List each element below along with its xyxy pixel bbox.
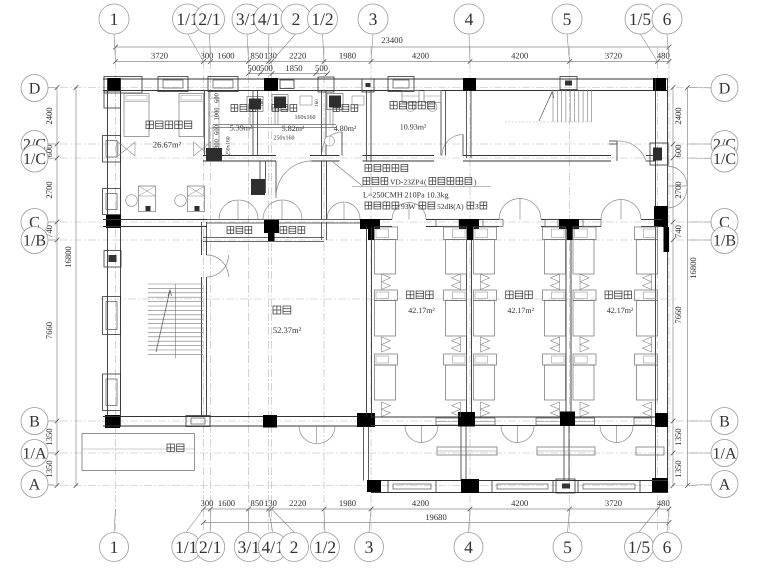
svg-text:1/5: 1/5 [628, 537, 651, 557]
note line1 [365, 165, 372, 172]
left bubble leader lines [47, 88, 57, 486]
duct box at stub wall [251, 179, 265, 195]
note line4 [365, 202, 372, 209]
bed 1 room D1 [124, 94, 149, 137]
window top wall (office) [388, 77, 414, 92]
svg-text:2700: 2700 [44, 181, 54, 198]
small box grid 3 top [362, 79, 374, 92]
window wall B room1 [436, 418, 495, 425]
bath fixture rect b [209, 116, 219, 128]
staircase (top right) [553, 90, 592, 123]
svg-text:42.17m²: 42.17m² [507, 306, 534, 315]
grid bubble 3 (top) [358, 4, 388, 34]
svg-text:3720: 3720 [605, 498, 622, 508]
wall grid C rooms top segment d [641, 219, 662, 221]
partition wall grid 1/2 [321, 91, 323, 156]
svg-text:4.80m²: 4.80m² [334, 124, 357, 133]
grid bubble 6 (bottom) [653, 533, 682, 562]
grid bubble B (right) [711, 408, 738, 435]
window left wall y297 [103, 297, 121, 335]
svg-text:500: 500 [248, 63, 261, 73]
balcony divider grid 5 [563, 426, 565, 481]
window left wall y374 [103, 374, 121, 411]
entrance double door (arcs down) [299, 426, 317, 444]
svg-text:2/1: 2/1 [198, 9, 220, 29]
svg-text:3: 3 [369, 9, 378, 29]
grid bubble 1/C (left) [21, 145, 48, 172]
window wall A 1 [388, 481, 436, 493]
column grid 4xD [463, 78, 476, 91]
svg-text:5: 5 [563, 537, 572, 557]
svg-text:1/5: 1/5 [629, 9, 652, 29]
wall grid 1/C segment bath [203, 155, 276, 157]
shaft end wall grid 1/1 [201, 222, 203, 240]
svg-text:42.17m²: 42.17m² [408, 306, 435, 315]
svg-text:2: 2 [290, 537, 299, 557]
grid bubble 2/1 (bottom) [196, 533, 225, 562]
column grid 6xB [655, 413, 668, 427]
stair hall door (arcs) [207, 255, 229, 277]
balcony door room1 (arcs down) [405, 426, 422, 443]
grid bubble 2/1 (top) [195, 4, 225, 34]
window module grid 5 top [560, 77, 577, 90]
office label [390, 102, 397, 109]
closet module wall C a [436, 219, 459, 226]
grid bubble 3/1 (bottom) [234, 533, 263, 562]
svg-text:5.39m²: 5.39m² [230, 124, 253, 133]
grid bubble 5 (bottom) [553, 533, 582, 562]
svg-text:2220: 2220 [289, 498, 306, 508]
label weak-electric shaft [280, 227, 287, 234]
label strong-electric shaft [227, 227, 234, 234]
grid bubble 3 (bottom) [355, 533, 384, 562]
svg-text:130: 130 [264, 498, 277, 508]
grid bubble C (right) [711, 209, 738, 236]
grid bubble 4 (bottom) [454, 533, 483, 562]
bath3 fixture rect [352, 96, 364, 105]
column grid 2xB [263, 415, 277, 428]
wall grid B rooms seg2 [470, 416, 570, 418]
svg-text:800: 800 [214, 139, 221, 149]
svg-text:B: B [29, 413, 40, 430]
svg-text:160x160: 160x160 [295, 115, 316, 121]
svg-text:3/1: 3/1 [238, 537, 260, 557]
svg-text:2400: 2400 [673, 107, 683, 124]
svg-text:A: A [29, 476, 41, 493]
six-person room 3 furniture [573, 227, 596, 240]
grid bubble 1/1 (top) [173, 4, 203, 34]
shaft end wall grid 1/2 [321, 222, 323, 240]
column grid 1xB [105, 415, 120, 428]
svg-text:1600: 1600 [218, 498, 235, 508]
window left wall y189 [103, 189, 121, 215]
grid bubble 5 (top) [552, 4, 582, 34]
svg-text:7660: 7660 [44, 322, 54, 339]
grid bubble 1/B (left) [21, 227, 48, 254]
column grid 3xB [357, 413, 375, 427]
exterior wall grid 6 (right) [655, 78, 657, 492]
svg-text:A: A [719, 476, 731, 493]
note line2 [363, 178, 370, 185]
closet module wall C d [583, 219, 601, 226]
office right wall [440, 91, 442, 156]
room3 door (double, opens up) [601, 200, 621, 220]
office door (swings into office) [462, 135, 464, 156]
grid bubble 1/B (right) [711, 227, 738, 254]
wall grid C rooms top segment c [541, 219, 601, 221]
bath3 round fixture [325, 136, 335, 146]
svg-text:26.67m²: 26.67m² [153, 140, 182, 150]
stub wall x261 with window C1218 [259, 161, 261, 193]
svg-text:850: 850 [251, 498, 264, 508]
svg-text:1/C: 1/C [23, 151, 46, 168]
column grid 3xC (T) [360, 219, 380, 229]
svg-text:300: 300 [201, 498, 214, 508]
top bubble leader lines [114, 34, 669, 62]
office chair 1 [406, 103, 415, 112]
partition wall bath1|bath2 [252, 91, 254, 156]
note underline [352, 186, 491, 188]
staircase (lobby, left) [148, 284, 203, 354]
duct elbow to wall [212, 125, 214, 151]
grid bubble 3/1 (top) [232, 4, 262, 34]
wall grid C room1 segment [103, 219, 207, 221]
six-person room 2 furniture [474, 227, 497, 240]
wall grid C rooms top segment a [371, 219, 392, 221]
lobby wall grid 1/1 upper [201, 240, 203, 255]
svg-text:3: 3 [475, 202, 479, 211]
window wall B room3 [634, 418, 652, 425]
window top wall (room 1) [158, 77, 188, 92]
svg-text:4200: 4200 [511, 51, 528, 61]
bath fixture rect a [209, 98, 219, 112]
window wall B x187 [186, 416, 210, 427]
svg-text:VD-23ZP4: VD-23ZP4 [390, 178, 424, 187]
wall grid 1/C segment d [646, 155, 656, 157]
lobby wall grid 1/1 lower [201, 277, 203, 417]
bath2 label [272, 105, 279, 112]
exhaust fan bath1 [249, 99, 261, 110]
svg-text:1: 1 [110, 9, 119, 29]
svg-text:6: 6 [663, 537, 672, 557]
svg-text:1350: 1350 [673, 460, 683, 477]
six-person room 1 label [407, 291, 414, 299]
svg-text:4: 4 [465, 9, 474, 29]
svg-text:1/B: 1/B [23, 232, 46, 249]
svg-text:3: 3 [365, 537, 374, 557]
corner box left wall below D [104, 91, 121, 108]
svg-text:500: 500 [315, 63, 328, 73]
svg-text:160: 160 [259, 99, 265, 107]
six-person room 3 label [605, 291, 612, 299]
column grid 4xC (T) [459, 219, 479, 229]
six-person room 1 furniture [375, 227, 398, 240]
grid bubble 1/C (right) [711, 145, 738, 172]
grid bubble 1/5 (bottom) [625, 533, 654, 562]
duct drop bath1 [249, 110, 251, 125]
column grid 6xC area [654, 206, 668, 227]
bottom bubble leader lines [114, 509, 669, 532]
svg-text:3720: 3720 [605, 51, 622, 61]
column grid 1xC [106, 215, 121, 228]
grid bubble 2/C (left) [21, 131, 48, 158]
grid bubble 1 (bottom) [100, 533, 129, 562]
grid bubble A (right) [711, 471, 738, 498]
railing rect balcony 3 [636, 447, 664, 455]
six-person room 2 label [506, 291, 513, 299]
svg-text:4200: 4200 [412, 51, 429, 61]
grid bubble D (left) [21, 75, 48, 102]
grid bubble 1/1 (bottom) [172, 533, 201, 562]
svg-text:1980: 1980 [339, 498, 356, 508]
wall grid 1/C segment b [363, 155, 435, 157]
grid bubble B (left) [21, 408, 48, 435]
wall grid B lobby [103, 416, 371, 418]
svg-text:19680: 19680 [425, 512, 446, 522]
balcony door room3 (arcs down) [600, 426, 617, 443]
window wall A 3 [578, 481, 640, 493]
shaft double door right (arcs up) [263, 200, 282, 219]
small box right of column 2xD [280, 80, 294, 89]
grid bubble A (left) [21, 471, 48, 498]
svg-text:1350: 1350 [44, 428, 54, 445]
window left wall y136 [103, 136, 121, 163]
terrace label (down) [167, 444, 174, 452]
wall grid 1/C segment c [463, 155, 611, 157]
svg-text:B: B [719, 413, 730, 430]
svg-text:93W: 93W [401, 202, 417, 211]
svg-text:42.17m²: 42.17m² [607, 306, 634, 315]
grid bubble 2 (top) [281, 4, 311, 34]
desk 2 room D1 [188, 186, 205, 212]
grid bubble 1 (top) [99, 4, 129, 34]
svg-text:500: 500 [260, 63, 273, 73]
duct drop bath2 [274, 108, 276, 125]
svg-text:52.37m²: 52.37m² [273, 325, 302, 335]
svg-text:250x160: 250x160 [274, 136, 295, 142]
svg-text:2/1: 2/1 [199, 537, 221, 557]
exterior door right wall [668, 166, 688, 186]
right bubble leader lines [688, 88, 713, 486]
bath3 label [333, 105, 340, 112]
column grid 6xD [653, 78, 666, 91]
wall grid A (bottom) [371, 480, 668, 482]
grid bubble 4 (top) [454, 4, 484, 34]
wall shaft bottom 1/B [203, 237, 324, 239]
svg-text:1/A: 1/A [713, 445, 737, 462]
grid bubble 1/A (right) [711, 440, 738, 467]
office chair 2 [428, 103, 437, 112]
small duct box left wall y251 [104, 251, 121, 268]
svg-text:23400: 23400 [381, 35, 402, 45]
column grid 3xA [367, 480, 381, 492]
svg-text:1/1: 1/1 [175, 537, 197, 557]
partition wall grid 3 upper [366, 91, 368, 161]
window right wall y143 (dark) [650, 143, 668, 165]
svg-text:300: 300 [201, 51, 214, 61]
svg-text:2220: 2220 [289, 51, 306, 61]
svg-text:5.82m²: 5.82m² [282, 124, 305, 133]
bath3 door (swings into bath3) [341, 132, 343, 156]
chair 1 room D1 [126, 195, 138, 207]
svg-text:4200: 4200 [412, 498, 429, 508]
svg-text:5: 5 [563, 9, 572, 29]
column grid 1xD [107, 78, 121, 91]
exhaust fan bath3 [329, 96, 341, 108]
horizontal grid axis lines A..D (dashed) [46, 88, 714, 486]
column grid 6xA [652, 478, 668, 492]
svg-text:D: D [719, 80, 731, 97]
svg-text:1350: 1350 [673, 428, 683, 445]
duct drop bath3 [329, 108, 331, 125]
wall grid B rooms seg1 [371, 416, 470, 418]
partition grid 3 rooms [366, 227, 368, 418]
closet module wall C b [483, 219, 503, 226]
column grid 4xA [461, 479, 479, 493]
room label duty room [146, 121, 153, 129]
wall grid C shaft top [207, 219, 371, 221]
svg-text:1000: 1000 [214, 108, 221, 121]
desk 1 room D1 [139, 186, 156, 212]
window module grid 1/2 top [318, 77, 334, 92]
wall grid C rooms top segment b [426, 219, 499, 221]
svg-text:10.93m²: 10.93m² [400, 123, 427, 132]
window wall B room2 [536, 418, 595, 425]
svg-text:1/C: 1/C [713, 151, 736, 168]
wall grid B rooms seg3 [570, 416, 656, 418]
vertical grid axis lines 1..6 (dashed) [116, 47, 670, 530]
terrace outline (down ramp) [82, 434, 195, 471]
balcony divider grid 3 [363, 426, 365, 481]
svg-text:52dB(A): 52dB(A) [437, 202, 464, 211]
svg-text:3720: 3720 [151, 51, 168, 61]
duct run horizontal [213, 124, 336, 126]
svg-text:1350: 1350 [44, 460, 54, 477]
left segment dimension column 2400/600/2700/740/7660/1350/1350 [21, 75, 738, 498]
terrace mid line [82, 448, 195, 450]
column grid 5xC (T) [559, 219, 579, 229]
railing rect balcony 1 [437, 447, 497, 455]
partition grid 5 rooms [565, 240, 567, 412]
svg-text:160: 160 [314, 99, 320, 107]
window wall A 2 [492, 481, 553, 493]
svg-text:4/1: 4/1 [258, 9, 280, 29]
railing rect balcony 2 [537, 447, 595, 455]
svg-text:600: 600 [673, 145, 683, 158]
exterior wall grid 1 (left) [107, 78, 109, 427]
grid bubble 1/2 (bottom) [311, 533, 340, 562]
svg-text:1/2: 1/2 [311, 9, 333, 29]
balcony door room2 (arcs down) [501, 426, 518, 443]
grid bubble 1/A (left) [21, 440, 48, 467]
svg-text:850: 850 [251, 51, 264, 61]
right segment dimension column 2400/600/2700/740/7660/1350/1350 [82, 75, 738, 498]
office desk 2 [424, 91, 441, 103]
shaft double door left (arcs up) [219, 200, 238, 219]
bath entry door (arc down-right) [275, 161, 277, 198]
chair 2 room D1 [175, 195, 187, 207]
lobby label [273, 306, 281, 314]
svg-text:2700: 2700 [673, 181, 683, 198]
column grid 4xB [458, 412, 475, 427]
svg-text:L=250CMH 210Pa 10.3kg: L=250CMH 210Pa 10.3kg [363, 191, 449, 200]
partition wall grid 2/1 [204, 91, 206, 156]
office desk 1 [402, 91, 419, 103]
window top wall (bath 1) [208, 77, 238, 92]
grid bubble 2 (bottom) [280, 533, 309, 562]
svg-text:1/B: 1/B [713, 232, 736, 249]
svg-text:D: D [29, 80, 41, 97]
corner window module 1xD [104, 77, 142, 94]
grid bubble 6 (top) [652, 4, 682, 34]
grid bubble C (left) [21, 209, 48, 236]
vent symbol left wall room D1 [118, 142, 135, 156]
column grid 5xB [560, 412, 575, 427]
svg-text:250x160: 250x160 [226, 136, 232, 156]
column grid 2xD [264, 78, 278, 91]
svg-text:2400: 2400 [44, 107, 54, 124]
room1 door (double, opens up) [392, 203, 409, 220]
window module grid 5 bottom [556, 479, 575, 493]
grid bubble 4/1 (top) [254, 4, 284, 34]
grid bubble 1/5 (top) [625, 4, 655, 34]
svg-text:1/2: 1/2 [314, 537, 336, 557]
bed 2 room D1 [179, 94, 204, 137]
svg-text:6: 6 [663, 9, 672, 29]
stair enclosure wall grid 4 [466, 91, 468, 158]
vent symbol right wall room D1 [194, 142, 211, 156]
grid bubble 2/C (right) [711, 131, 738, 158]
svg-text:480: 480 [657, 498, 670, 508]
svg-text:600: 600 [214, 125, 221, 135]
bath2 fixture rect [300, 96, 312, 105]
svg-text:16800: 16800 [688, 257, 698, 278]
svg-text:1: 1 [110, 537, 119, 557]
svg-text:480: 480 [657, 51, 670, 61]
svg-text:1600: 1600 [217, 51, 234, 61]
corridor door near grid 6 (arc) [616, 141, 618, 161]
grid bubble 1/2 (top) [308, 4, 338, 34]
left overall dimension 16800 [21, 75, 738, 498]
grid bubble 4/1 (bottom) [258, 533, 287, 562]
exterior wall grid D (top) [103, 78, 668, 80]
svg-text:740: 740 [673, 225, 683, 238]
svg-text:1980: 1980 [339, 51, 356, 61]
door wall C near grid 1/2 (arcs up) [327, 202, 344, 219]
closet module wall C c [545, 219, 558, 226]
corridor west wall grid 1/2 [321, 161, 323, 220]
exhaust fan bath2 [274, 97, 286, 109]
svg-text:2: 2 [292, 9, 301, 29]
bath1 label [231, 105, 238, 112]
grid bubble D (right) [711, 75, 738, 102]
svg-text:4: 4 [464, 537, 473, 557]
room2 door (double, opens up) [499, 199, 520, 220]
column grid 2 at shaft (T) [264, 220, 279, 233]
svg-text:16800: 16800 [63, 246, 73, 267]
svg-text:4200: 4200 [511, 498, 528, 508]
svg-text:1/A: 1/A [23, 445, 47, 462]
right overall dimension 16800 [82, 75, 738, 498]
svg-text:7660: 7660 [673, 306, 683, 323]
svg-text:1850: 1850 [285, 63, 302, 73]
balcony divider grid 4 [460, 426, 462, 481]
svg-text:130: 130 [264, 51, 277, 61]
note leader line [333, 162, 363, 187]
partition grid 4 rooms [466, 240, 468, 412]
duct box through wall 1/C [206, 148, 222, 161]
